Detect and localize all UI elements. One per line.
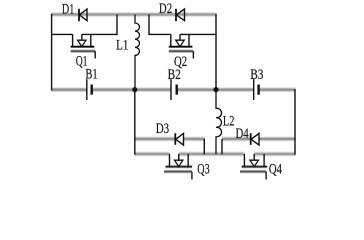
svg-text:L2: L2 — [223, 113, 235, 129]
svg-text:Q4: Q4 — [269, 162, 283, 178]
diode D3 cathode bar — [174, 133, 176, 145]
transistor Q3 arrow head — [175, 160, 183, 166]
transistor Q4 drain leg — [263, 154, 265, 167]
transistor Q3 arrow stem — [178, 154, 180, 160]
transistor Q4 gate hook — [265, 172, 267, 180]
wire left rail — [51, 14, 53, 90]
inductor L2 — [216, 90, 222, 155]
wire battery bus segment B2-B3 — [177, 89, 254, 91]
transistor Q4 gate bar — [240, 171, 266, 173]
transistor Q2 gate bar — [169, 50, 194, 52]
transistor Q4 arrow stem — [253, 154, 255, 160]
transistor Q3 gate hook — [191, 172, 193, 180]
battery B2 long plate — [170, 79, 172, 100]
wire Q3 source horizontal — [134, 153, 169, 155]
wire battery bus segment B1-B2 — [92, 89, 171, 91]
battery B2 short plate — [175, 85, 177, 95]
transistor Q1 arrow head — [78, 40, 86, 46]
transistor Q2 source leg — [170, 34, 172, 46]
transistor Q3 gate bar — [164, 171, 192, 173]
diode D3 triangle — [176, 133, 184, 145]
wire mid-left drop node B1-B2 — [134, 90, 136, 155]
transistor Q4 channel bar — [242, 166, 268, 168]
wire Q4 drain horizontal — [254, 153, 295, 155]
transistor Q2 arrow stem — [179, 34, 181, 40]
transistor Q1 gate bar — [71, 50, 96, 52]
transistor Q4 arrow head — [250, 160, 258, 166]
diode D2 cathode bar — [175, 9, 177, 21]
wire Q3 drain to Q4 source horizontal — [179, 153, 245, 155]
battery B3 short plate — [257, 85, 259, 95]
svg-text:D4: D4 — [236, 126, 250, 142]
transistor Q1 source leg — [72, 34, 74, 46]
svg-text:B3: B3 — [250, 67, 263, 83]
svg-text:B1: B1 — [85, 67, 97, 83]
battery B1 short plate — [90, 85, 92, 95]
svg-text:D2: D2 — [159, 1, 172, 17]
wire D3 cathode horizontal — [184, 138, 205, 140]
diode D1 cathode bar — [78, 9, 80, 21]
wire D4 cathode horizontal — [259, 138, 296, 140]
wire Q2 source horizontal — [149, 33, 171, 35]
transistor Q2 arrow head — [176, 40, 184, 46]
svg-text:D3: D3 — [156, 121, 169, 137]
transistor Q1 channel bar — [71, 46, 95, 48]
svg-text:L1: L1 — [116, 38, 128, 54]
diode D2 triangle — [176, 9, 184, 21]
transistor Q3 drain leg — [187, 154, 189, 167]
wire top rail — [51, 14, 217, 16]
wire right rail — [215, 14, 217, 90]
wire Q1 source horizontal — [52, 33, 73, 35]
wire battery bus segment right — [259, 89, 296, 91]
transistor Q2 gate hook — [192, 51, 194, 58]
junction dot node B2-B3 — [213, 87, 218, 92]
wire Q1 drain tap — [116, 15, 118, 36]
transistor Q4 source leg — [243, 154, 245, 167]
wire Q2 source tap — [148, 15, 150, 36]
battery B3 long plate — [253, 79, 255, 100]
wire Q2 drain horizontal — [180, 33, 217, 35]
diode D4 cathode bar — [250, 133, 252, 145]
svg-text:B2: B2 — [168, 67, 181, 83]
junction dot node B1-B2 — [132, 87, 137, 92]
wire battery bus segment left — [51, 89, 87, 91]
transistor Q1 arrow stem — [81, 34, 83, 40]
battery B1 long plate — [86, 79, 88, 100]
svg-text:Q3: Q3 — [197, 162, 209, 178]
wire D3 elbow — [203, 139, 205, 155]
svg-text:D1: D1 — [62, 1, 74, 17]
wire right edge drop — [294, 89, 296, 155]
wire D4 elbow — [221, 139, 223, 155]
transistor Q1 gate hook — [94, 51, 96, 58]
transistor Q1 drain leg — [90, 34, 92, 46]
wire D4 anode horizontal — [222, 138, 251, 140]
transistor Q3 source leg — [169, 154, 171, 167]
transistor Q3 channel bar — [166, 166, 193, 168]
transistor Q2 channel bar — [169, 46, 193, 48]
inductor L1 — [135, 15, 140, 90]
transistor Q2 drain leg — [188, 34, 190, 46]
wire D3 anode horizontal — [134, 138, 175, 140]
wire Q1 drain horizontal — [82, 33, 118, 35]
diode D4 triangle — [251, 133, 259, 145]
diode D1 triangle — [79, 9, 87, 21]
